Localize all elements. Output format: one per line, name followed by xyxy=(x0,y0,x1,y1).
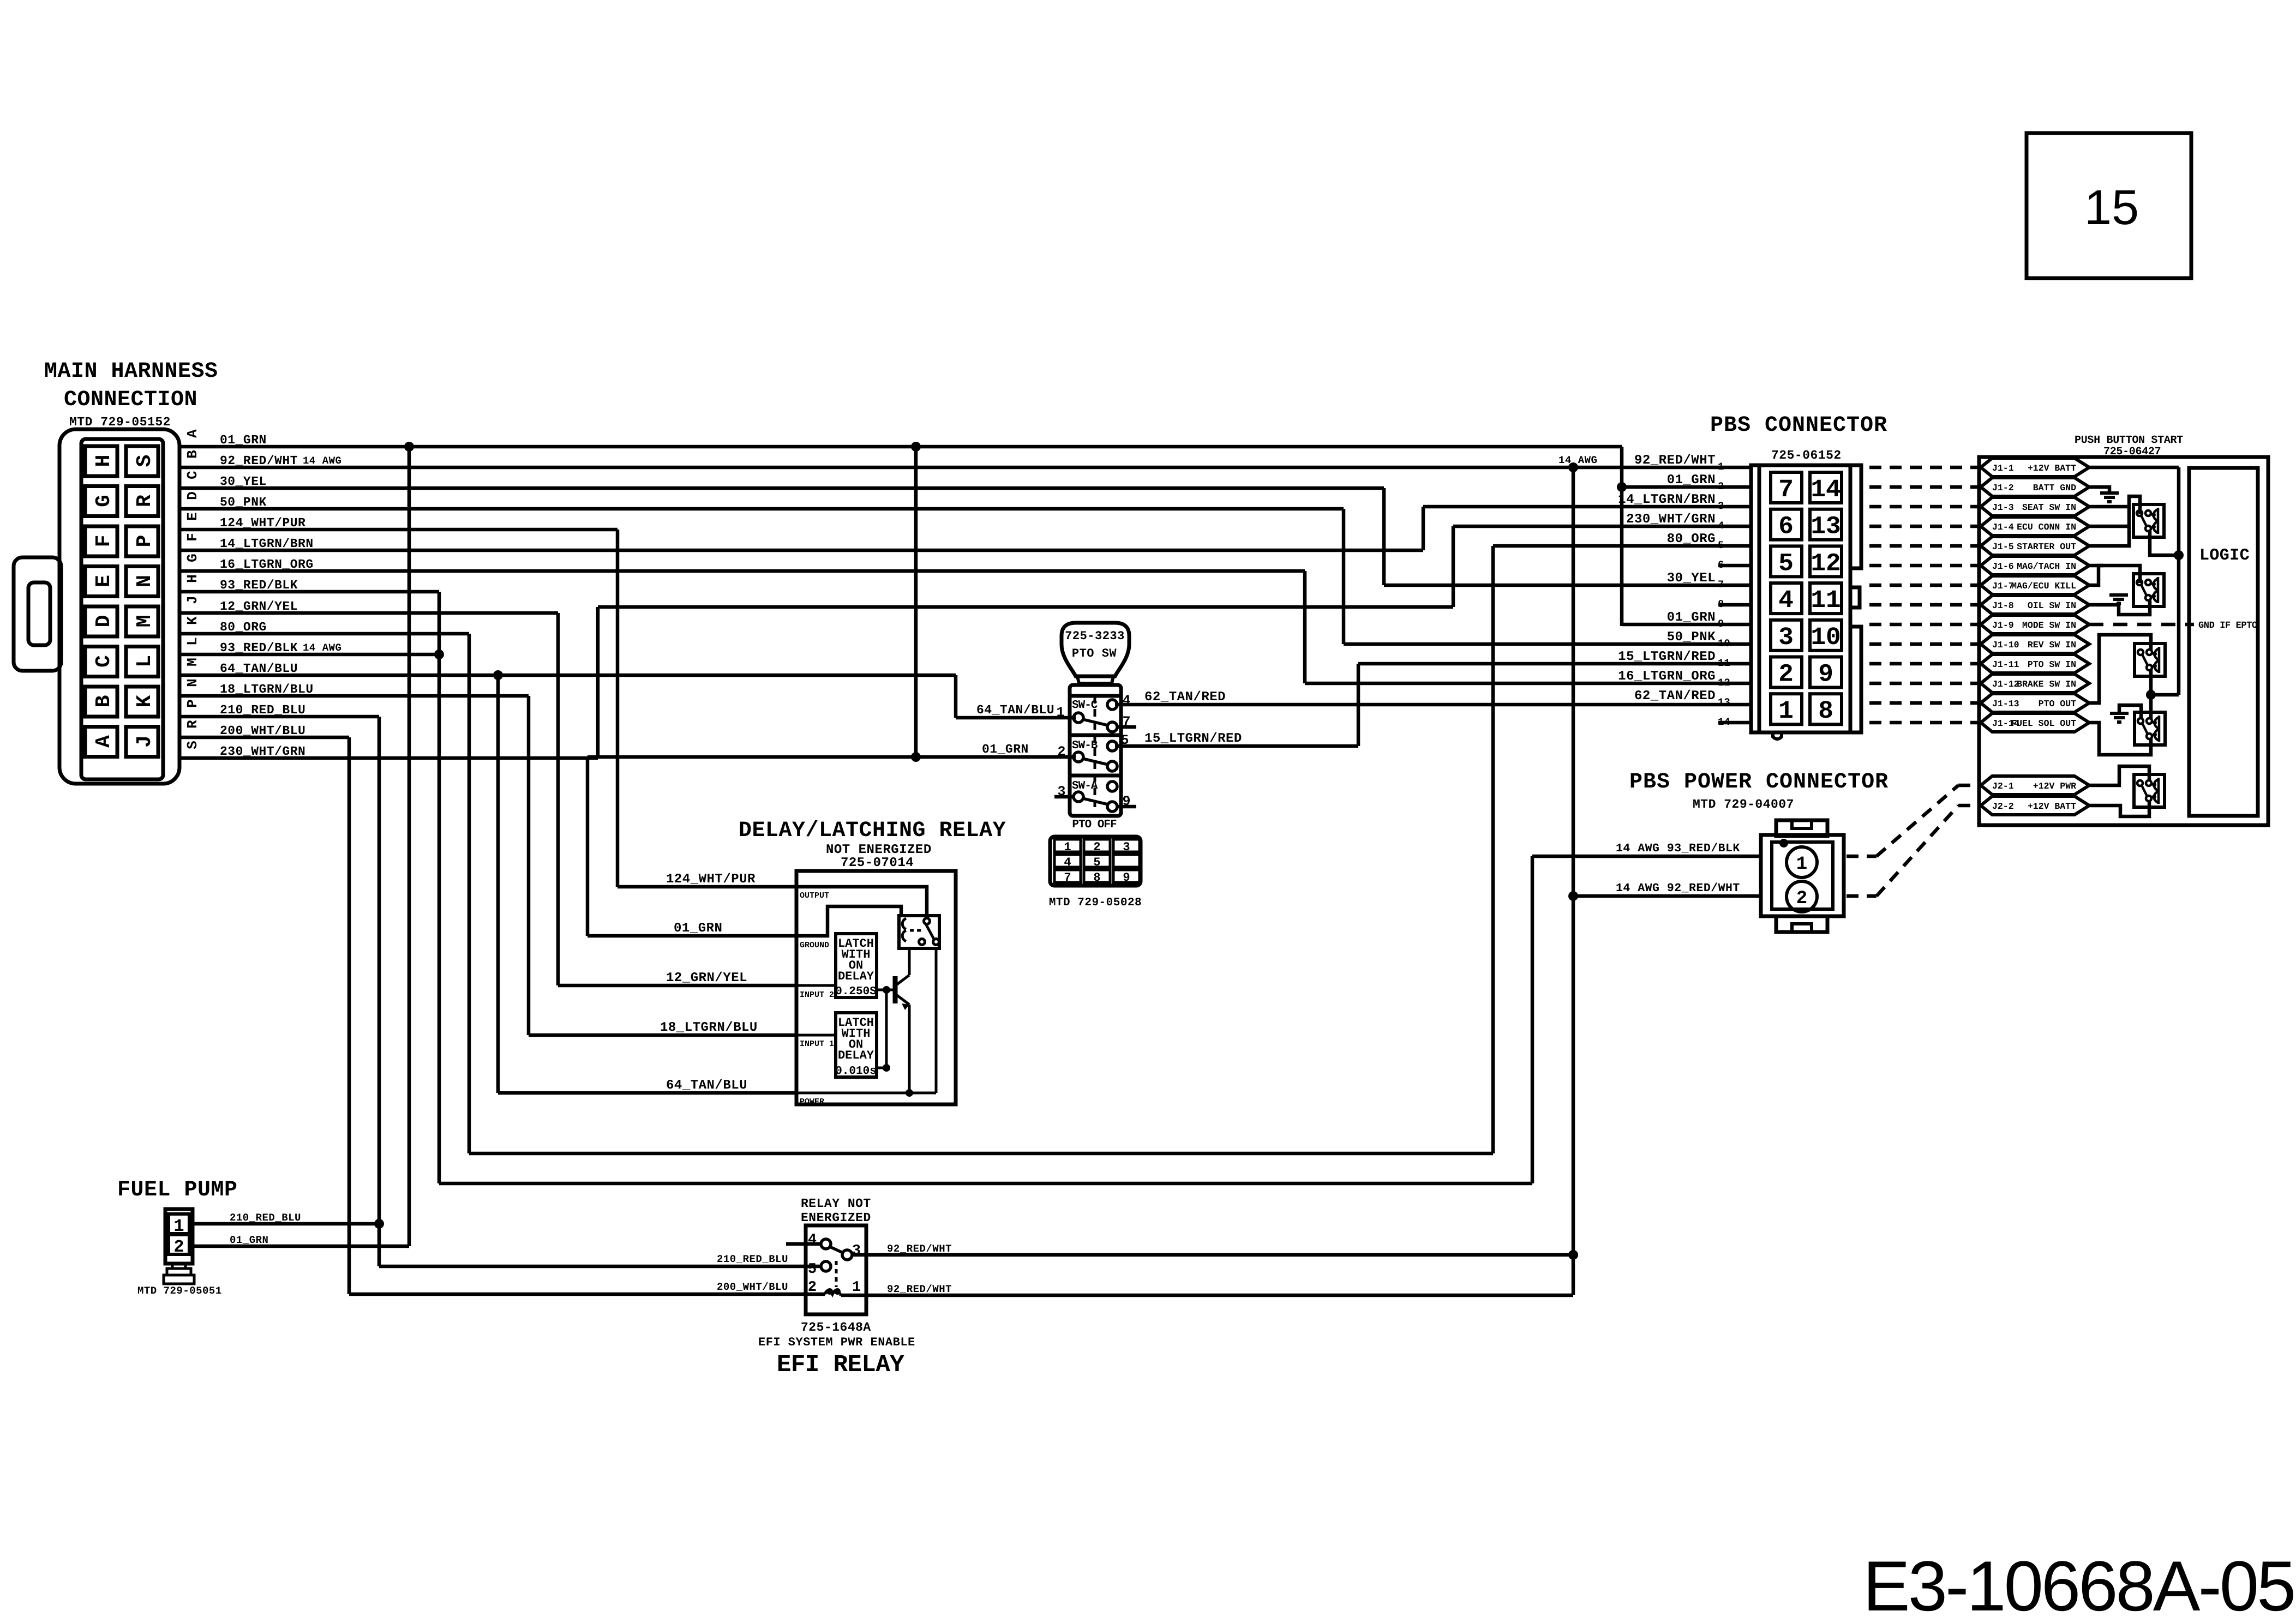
svg-text:SW-B: SW-B xyxy=(1072,740,1098,752)
svg-text:MTD 729-05051: MTD 729-05051 xyxy=(137,1285,222,1297)
svg-text:7: 7 xyxy=(1778,476,1794,504)
svg-text:01_GRN: 01_GRN xyxy=(1667,610,1716,625)
svg-text:G: G xyxy=(184,554,201,562)
svg-text:J1-7: J1-7 xyxy=(1992,581,2014,591)
EFI pin 3 contact xyxy=(842,1250,852,1260)
wire 14_LTGRN/BRN step up xyxy=(1422,507,1425,550)
svg-text:15_LTGRN/RED: 15_LTGRN/RED xyxy=(1144,731,1242,746)
main harness connector latch tab xyxy=(14,557,61,671)
svg-text:8: 8 xyxy=(1818,697,1833,725)
wire 01_GRN net xyxy=(404,442,414,452)
svg-text:J1-6: J1-6 xyxy=(1992,561,2014,572)
svg-text:5: 5 xyxy=(1093,856,1100,869)
wire 80_ORG vertical up xyxy=(1491,546,1495,1153)
svg-text:13: 13 xyxy=(1811,513,1841,541)
svg-text:18_LTGRN/BLU: 18_LTGRN/BLU xyxy=(660,1020,758,1035)
transistor Q1 (delay relay) xyxy=(877,989,894,991)
delay relay internal ground wire xyxy=(796,906,901,936)
delay relay latch 1 (0.250S) xyxy=(836,934,877,997)
svg-text:K: K xyxy=(133,695,157,707)
wire 01_GRN to PBS pin 2 xyxy=(1622,485,1752,489)
wire J1-7 MAG/ECU KILL internal xyxy=(2089,566,2140,585)
PBS pin 6 stub xyxy=(1718,564,1751,568)
svg-text:STARTER OUT: STARTER OUT xyxy=(2017,542,2076,552)
svg-text:16_LTGRN_ORG: 16_LTGRN_ORG xyxy=(1618,669,1716,684)
svg-text:R: R xyxy=(133,495,157,507)
svg-text:725-1648A: 725-1648A xyxy=(801,1320,871,1335)
svg-text:H: H xyxy=(184,574,201,583)
wire 30_YEL to PBS pin 7 xyxy=(1384,584,1752,587)
dashed wire J2-1 segment a xyxy=(1847,855,1877,858)
PBS power bottom tab xyxy=(1776,916,1827,932)
svg-text:BATT GND: BATT GND xyxy=(2033,483,2076,493)
svg-text:2: 2 xyxy=(1778,660,1794,689)
wire RY1 common to +12V rail xyxy=(2150,531,2179,555)
PBS pin box 8 xyxy=(1810,694,1842,724)
dashed wire PBS pin 7 to J1-7 xyxy=(1869,584,1979,587)
pin flag J1-3 SEAT SW IN xyxy=(1981,497,2089,516)
svg-text:92_RED/WHT: 92_RED/WHT xyxy=(887,1283,952,1295)
svg-text:2: 2 xyxy=(173,1237,184,1257)
svg-text:124_WHT/PUR: 124_WHT/PUR xyxy=(666,872,756,887)
svg-text:200_WHT/BLU: 200_WHT/BLU xyxy=(717,1281,788,1293)
svg-text:15: 15 xyxy=(2084,181,2139,235)
PBS pin box 6 xyxy=(1771,509,1802,540)
wire 200_WHT/BLU vertical xyxy=(347,737,351,1294)
svg-text:6: 6 xyxy=(1718,559,1724,571)
delay relay box xyxy=(796,871,956,1104)
svg-text:J1-5: J1-5 xyxy=(1992,542,2014,552)
PTO grid cell 3 xyxy=(1113,839,1140,852)
PTO switch actuator dashed line xyxy=(1094,696,1096,807)
svg-text:1: 1 xyxy=(852,1279,861,1296)
harness pin box R xyxy=(126,486,158,516)
PTO SW-B contacts xyxy=(1074,752,1083,762)
svg-text:1: 1 xyxy=(1778,697,1794,725)
svg-text:01_GRN: 01_GRN xyxy=(674,921,722,936)
wire 15_LTGRN/RED step up xyxy=(1357,664,1360,746)
harness pin box F xyxy=(85,526,117,556)
svg-text:10: 10 xyxy=(1811,623,1841,652)
svg-text:BRAKE SW IN: BRAKE SW IN xyxy=(2017,679,2076,689)
dashed wire PBS pin 3 to J1-3 xyxy=(1869,505,1979,509)
wire row G 16_LTGRN_ORG xyxy=(179,569,1305,573)
svg-text:MTD 729-05152: MTD 729-05152 xyxy=(69,415,171,429)
EFI relay blade xyxy=(830,1247,843,1253)
ground symbol (RY2) xyxy=(2109,593,2128,597)
EFI relay coil xyxy=(825,1290,840,1294)
svg-text:MTD 729-04007: MTD 729-04007 xyxy=(1693,797,1794,812)
pin flag J2-2 +12V BATT xyxy=(1981,796,2089,815)
wire RY2 common to ground xyxy=(2119,600,2150,615)
PTO grid cell 1 xyxy=(1054,839,1081,852)
svg-text:1: 1 xyxy=(1718,461,1724,473)
svg-text:A: A xyxy=(92,735,116,748)
EFI pin 4 stub xyxy=(786,1242,822,1246)
svg-text:5: 5 xyxy=(1778,549,1794,578)
harness pin box M xyxy=(126,606,158,636)
svg-text:PBS CONNECTOR: PBS CONNECTOR xyxy=(1710,413,1887,438)
svg-text:10: 10 xyxy=(1718,638,1730,650)
svg-text:4: 4 xyxy=(1778,586,1794,615)
PTO switch body xyxy=(1070,685,1121,816)
svg-text:N: N xyxy=(133,575,157,587)
wire 92_RED/WHT from EFI relay pin 3 xyxy=(852,1253,1573,1257)
relay RY2 (mag kill) xyxy=(2133,574,2164,606)
svg-text:SEAT SW IN: SEAT SW IN xyxy=(2022,502,2076,513)
svg-text:D: D xyxy=(92,615,116,628)
svg-text:4: 4 xyxy=(1122,693,1130,708)
relay RY5 (power) xyxy=(2134,774,2165,807)
wire 01_GRN vertical to fuel pump xyxy=(407,447,411,1246)
wire 14_LTGRN/BRN to PBS pin 3 xyxy=(1423,505,1752,509)
svg-text:PTO SW: PTO SW xyxy=(1072,647,1117,660)
svg-text:14_LTGRN/BRN: 14_LTGRN/BRN xyxy=(1618,492,1716,507)
wire 18_LTGRN/BLU to delay relay INPUT 1 xyxy=(529,1033,796,1037)
wire 64_TAN/BLU to PTO pin 1 xyxy=(956,716,1076,720)
svg-text:11: 11 xyxy=(1811,586,1841,615)
svg-text:+12V BATT: +12V BATT xyxy=(2028,463,2076,473)
dashed wire J2-2 segment a xyxy=(1847,894,1877,898)
harness pin box J xyxy=(126,727,158,757)
wire 12_GRN/YEL to delay relay INPUT 2 xyxy=(558,984,796,988)
wire row L 93_RED/BLK xyxy=(179,653,439,657)
wire RY4 common to J1-14 xyxy=(2089,723,2151,755)
wire 124_WHT/PUR to delay relay OUTPUT xyxy=(618,885,796,889)
svg-text:+12V PWR: +12V PWR xyxy=(2033,781,2076,791)
pin flag J1-13 PTO OUT xyxy=(1981,694,2089,712)
PBS pin box 13 xyxy=(1810,509,1842,540)
pin flag J1-5 STARTER OUT xyxy=(1981,537,2089,555)
main harness connector body xyxy=(59,429,179,784)
svg-text:725-07014: 725-07014 xyxy=(841,856,914,870)
svg-text:PTO OUT: PTO OUT xyxy=(2039,699,2076,709)
dashed wire PBS pin 12 to J1-12 xyxy=(1869,682,1979,686)
EFI relay actuator dashed xyxy=(835,1261,838,1287)
pin flag J1-4 ECU CONN IN xyxy=(1981,517,2089,536)
svg-text:P: P xyxy=(133,535,157,548)
wire rail junction xyxy=(2151,693,2179,697)
svg-text:H: H xyxy=(92,455,116,467)
svg-text:J1-10: J1-10 xyxy=(1992,640,2019,650)
wire 230_WHT/GRN to PBS pin 4 xyxy=(1453,525,1752,528)
svg-text:12: 12 xyxy=(1718,677,1730,689)
svg-text:9: 9 xyxy=(1818,660,1833,689)
svg-text:0.010s: 0.010s xyxy=(835,1065,877,1078)
PBS pin box 5 xyxy=(1771,546,1802,576)
wire row B 92_RED/WHT xyxy=(179,466,1752,470)
svg-text:C: C xyxy=(184,471,201,479)
svg-text:GND IF EPTO: GND IF EPTO xyxy=(2198,621,2257,631)
wire 92_RED/WHT net xyxy=(1568,462,1578,472)
svg-text:F: F xyxy=(92,535,116,548)
svg-text:REV SW IN: REV SW IN xyxy=(2028,640,2076,650)
PTO grid cell 6 xyxy=(1113,855,1140,867)
svg-text:30_YEL: 30_YEL xyxy=(1667,571,1716,586)
wire 01_GRN vertical at PBS xyxy=(1620,447,1624,626)
svg-text:S: S xyxy=(184,741,201,749)
svg-text:DELAY/LATCHING RELAY: DELAY/LATCHING RELAY xyxy=(739,819,1006,843)
PTO grid cell 7 xyxy=(1054,870,1081,882)
wire J1-3 internal xyxy=(2089,505,2129,509)
svg-text:5: 5 xyxy=(1120,732,1129,748)
wire 50_PNK step down xyxy=(1342,509,1346,644)
svg-text:LOGIC: LOGIC xyxy=(2199,546,2250,565)
svg-text:01_GRN: 01_GRN xyxy=(982,742,1029,756)
PTO grid cell 4 xyxy=(1054,855,1081,867)
PTO pin 7 stub xyxy=(1117,725,1136,729)
PBS power circle 2 xyxy=(1787,881,1817,912)
wire 92_RED/WHT to PBS power pin 2 xyxy=(1573,894,1761,898)
svg-text:64_TAN/BLU: 64_TAN/BLU xyxy=(666,1078,747,1093)
wire 64_TAN/BLU step to PTO xyxy=(954,675,958,718)
PBS pin box 9 xyxy=(1810,657,1842,688)
fuel pump terminal stem xyxy=(172,1264,185,1269)
svg-text:K: K xyxy=(184,616,201,625)
relay RY4 (fuel sol) xyxy=(2135,712,2165,745)
svg-text:3: 3 xyxy=(1718,500,1724,512)
wire 62_TAN/RED PTO pin4 to PBS pin 13 xyxy=(1115,703,1752,707)
PTO switch 725-3233 xyxy=(1062,623,1129,676)
svg-text:725-06152: 725-06152 xyxy=(1771,448,1842,462)
svg-text:CONNECTION: CONNECTION xyxy=(64,388,197,412)
wire 30_YEL step down xyxy=(1382,488,1386,585)
wire 16_LTGRN_ORG step down xyxy=(1303,571,1307,683)
svg-text:+12V BATT: +12V BATT xyxy=(2028,801,2076,812)
svg-text:B: B xyxy=(184,450,201,459)
wire 210_RED_BLU fuel pump pin1 xyxy=(191,1222,379,1226)
harness pin box K xyxy=(126,687,158,717)
svg-text:14 AWG: 14 AWG xyxy=(303,455,341,467)
svg-text:3: 3 xyxy=(852,1243,861,1259)
harness pin box L xyxy=(126,647,158,677)
PBS connector body xyxy=(1751,465,1850,732)
svg-text:13: 13 xyxy=(1718,696,1730,708)
wire row C 30_YEL xyxy=(179,486,1384,490)
svg-text:2: 2 xyxy=(1796,888,1807,909)
svg-text:FUEL PUMP: FUEL PUMP xyxy=(117,1178,238,1203)
svg-text:J1-12: J1-12 xyxy=(1992,679,2019,689)
wire row K 80_ORG xyxy=(179,632,469,636)
wire 93_RED/BLK vertical up xyxy=(1531,856,1534,1183)
wire row N 18_LTGRN/BLU xyxy=(179,694,529,698)
svg-text:4: 4 xyxy=(1718,520,1724,532)
wire J1-4 internal xyxy=(2089,525,2129,528)
svg-text:62_TAN/RED: 62_TAN/RED xyxy=(1634,689,1716,704)
svg-text:EFI RELAY: EFI RELAY xyxy=(777,1351,904,1379)
svg-text:P: P xyxy=(184,699,201,708)
pin flag J1-7 MAG/ECU KILL xyxy=(1981,576,2089,594)
wire 93_RED/BLK to PBS power pin 1 xyxy=(1532,855,1761,858)
wire 210_RED_BLU vertical xyxy=(377,717,381,1266)
svg-text:OIL SW IN: OIL SW IN xyxy=(2028,600,2076,611)
harness pin box D xyxy=(85,606,117,636)
pin flag J1-8 OIL SW IN xyxy=(1981,596,2089,614)
wire 80_ORG to PBS pin 5 xyxy=(1493,544,1752,548)
fuel pump terminal plate 2 xyxy=(164,1275,194,1284)
wire J1-1 +12V batt internal xyxy=(2089,466,2179,470)
ground symbol (J1-2 BATT GND) xyxy=(2100,491,2119,495)
svg-text:L: L xyxy=(184,637,201,646)
svg-text:ECU CONN IN: ECU CONN IN xyxy=(2017,522,2076,532)
dashed wire J2-2 segment b xyxy=(1877,806,1958,896)
svg-text:7: 7 xyxy=(1718,579,1724,591)
wire row H 93_RED/BLK xyxy=(179,590,439,594)
svg-text:9: 9 xyxy=(1718,618,1724,630)
svg-text:8: 8 xyxy=(1093,871,1100,885)
wire 230_WHT/GRN step up 2 xyxy=(1452,526,1455,607)
wire 80_ORG vertical down xyxy=(467,634,471,1153)
PTO pin 3 stub xyxy=(1054,795,1074,799)
pin flag J1-12 BRAKE SW IN xyxy=(1981,674,2089,693)
EFI pin 5 contact xyxy=(821,1261,831,1271)
svg-text:MAG/TACH IN: MAG/TACH IN xyxy=(2017,561,2076,572)
svg-text:J1-3: J1-3 xyxy=(1992,502,2014,513)
svg-text:14 AWG 93_RED/BLK: 14 AWG 93_RED/BLK xyxy=(1616,842,1740,855)
svg-text:PUSH BUTTON START: PUSH BUTTON START xyxy=(2075,434,2183,447)
harness pin box B xyxy=(85,687,117,717)
dashed wire PBS pin 4 to J1-4 xyxy=(1869,525,1979,528)
svg-text:14: 14 xyxy=(1718,716,1730,728)
svg-text:2: 2 xyxy=(1093,840,1100,854)
svg-text:ENERGIZED: ENERGIZED xyxy=(801,1211,871,1225)
delay relay internal output wire xyxy=(796,887,927,917)
dashed wire J2-1 segment b xyxy=(1877,785,1958,856)
svg-text:SW-A: SW-A xyxy=(1072,780,1098,792)
svg-text:2: 2 xyxy=(1057,744,1065,760)
wire 50_PNK to PBS pin 10 xyxy=(1344,642,1752,646)
svg-text:92_RED/WHT: 92_RED/WHT xyxy=(887,1243,952,1255)
dashed wire PBS pin 8 to J1-8 xyxy=(1869,603,1979,607)
wire 01_GRN vertical to PTO xyxy=(914,447,918,757)
svg-text:4: 4 xyxy=(808,1232,817,1248)
sheet number box 15 xyxy=(2027,133,2191,278)
wire 93_RED/BLK vertical xyxy=(437,592,441,1183)
svg-text:NOT ENERGIZED: NOT ENERGIZED xyxy=(826,843,932,857)
harness pin box N xyxy=(126,567,158,597)
wire 230_WHT/GRN step up xyxy=(596,607,600,758)
svg-text:F: F xyxy=(184,533,201,542)
delay relay input2 internal xyxy=(796,984,836,987)
svg-text:M: M xyxy=(184,658,201,666)
wire row E 124_WHT/PUR xyxy=(179,528,618,532)
wire 93_RED/BLK net xyxy=(434,650,444,659)
svg-text:15_LTGRN/RED: 15_LTGRN/RED xyxy=(1618,650,1716,664)
harness pin box C xyxy=(85,647,117,677)
delay relay contact to power wire xyxy=(935,948,938,1093)
PTO grid cell 9 xyxy=(1113,870,1140,882)
wire row F 14_LTGRN/BRN xyxy=(179,549,1423,552)
svg-text:5: 5 xyxy=(1718,539,1724,551)
pin flag J1-6 MAG/TACH IN xyxy=(1981,556,2089,575)
svg-text:INPUT 1: INPUT 1 xyxy=(800,1039,834,1049)
wire row R 200_WHT/BLU xyxy=(179,736,349,740)
svg-text:EFI SYSTEM PWR ENABLE: EFI SYSTEM PWR ENABLE xyxy=(758,1336,915,1349)
PBS pin box 11 xyxy=(1810,583,1842,614)
wire 124_WHT/PUR vertical xyxy=(616,530,620,887)
PBS power circle 1 xyxy=(1787,847,1817,877)
svg-text:PTO OFF: PTO OFF xyxy=(1072,819,1117,831)
dashed wire PBS pin 6 to J1-6 xyxy=(1869,564,1979,568)
fuel pump connector body xyxy=(165,1209,193,1264)
svg-text:GROUND: GROUND xyxy=(800,941,829,950)
PTO grid cell 5 xyxy=(1084,855,1110,867)
dashed wire PBS pin 5 to J1-5 xyxy=(1869,544,1979,548)
EFI relay box xyxy=(806,1225,866,1314)
EFI pin 4 contact xyxy=(821,1239,831,1249)
svg-text:210_RED_BLU: 210_RED_BLU xyxy=(230,1212,301,1224)
svg-text:230_WHT/GRN: 230_WHT/GRN xyxy=(1626,512,1716,527)
svg-text:1: 1 xyxy=(1796,854,1807,875)
svg-text:C: C xyxy=(92,655,116,668)
wire J2-2 to RY5 common xyxy=(2089,801,2149,816)
relay RY1 (starter) xyxy=(2133,504,2164,537)
svg-text:D: D xyxy=(184,491,201,500)
wire row P 210_RED_BLU xyxy=(179,715,379,719)
PTO SW-C contacts xyxy=(1074,713,1083,723)
dashed wire PBS pin 13 to J1-13 xyxy=(1869,701,1979,705)
harness pin box A xyxy=(85,727,117,757)
PBS power top tab xyxy=(1776,820,1827,836)
PTO grid cell 2 xyxy=(1084,839,1110,852)
wire 01_GRN vertical to delay relay ground xyxy=(586,757,590,936)
wire 15_LTGRN/RED from PTO pin 5 xyxy=(1115,744,1358,748)
pin flag J1-9 MODE SW IN xyxy=(1981,615,2089,634)
wire 230_WHT/GRN ride xyxy=(598,605,1453,609)
svg-text:12: 12 xyxy=(1811,549,1841,578)
svg-text:PTO SW IN: PTO SW IN xyxy=(2028,659,2076,670)
PBS pin box 12 xyxy=(1810,546,1842,576)
pin flag J1-10 REV SW IN xyxy=(1981,635,2089,653)
pin flag J2-1 +12V PWR xyxy=(1981,776,2089,795)
wire RY4 to ground xyxy=(2119,705,2141,719)
PTO knob neck band 2 xyxy=(1077,676,1113,683)
wire row A 01_GRN xyxy=(179,445,1622,449)
LOGIC box xyxy=(2189,468,2258,816)
wire 64_TAN/BLU to delay relay POWER xyxy=(498,1091,796,1095)
wire 01_GRN fuel pump pin2 xyxy=(191,1245,409,1248)
svg-text:4: 4 xyxy=(1064,856,1071,869)
pin flag J1-14 FUEL SOL OUT xyxy=(1981,713,2089,732)
svg-text:MAIN HARNNESS: MAIN HARNNESS xyxy=(44,359,218,384)
wire 01_GRN to PBS pin 9 xyxy=(1622,623,1752,627)
svg-text:2: 2 xyxy=(808,1279,817,1296)
svg-text:N: N xyxy=(184,678,201,687)
PBS connector right wall upper xyxy=(1850,465,1861,568)
PBS pin box 4 xyxy=(1771,583,1802,614)
PTO pin 9 stub xyxy=(1117,805,1136,809)
dashed wire PBS pin 11 to J1-11 xyxy=(1869,662,1979,666)
PBS pin box 10 xyxy=(1810,620,1842,651)
ground symbol (RY4) xyxy=(2110,712,2129,715)
wire RY3 common to RY4 xyxy=(2149,670,2153,719)
PBS power polarity dot xyxy=(1779,839,1788,847)
svg-text:J: J xyxy=(184,596,201,604)
svg-text:J: J xyxy=(133,735,157,748)
wire J1-6 MAG/TACH internal xyxy=(2089,564,2103,568)
dashed wire PBS pin 9 to J1-9 xyxy=(1869,623,1979,627)
svg-text:210_RED_BLU: 210_RED_BLU xyxy=(717,1253,788,1265)
wire 80_ORG horizontal bottom xyxy=(469,1152,1493,1156)
pin flag J1-11 PTO SW IN xyxy=(1981,654,2089,673)
PBS power body xyxy=(1761,835,1844,916)
svg-text:92_RED/WHT: 92_RED/WHT xyxy=(1634,453,1716,468)
svg-text:01_GRN: 01_GRN xyxy=(1667,473,1716,488)
PBS pin box 7 xyxy=(1771,472,1802,503)
wire 01_GRN to delay relay GROUND xyxy=(588,934,796,938)
dashed wire PBS pin 2 to J1-2 xyxy=(1869,485,1979,489)
wire 16_LTGRN_ORG to PBS pin 12 xyxy=(1305,682,1752,686)
